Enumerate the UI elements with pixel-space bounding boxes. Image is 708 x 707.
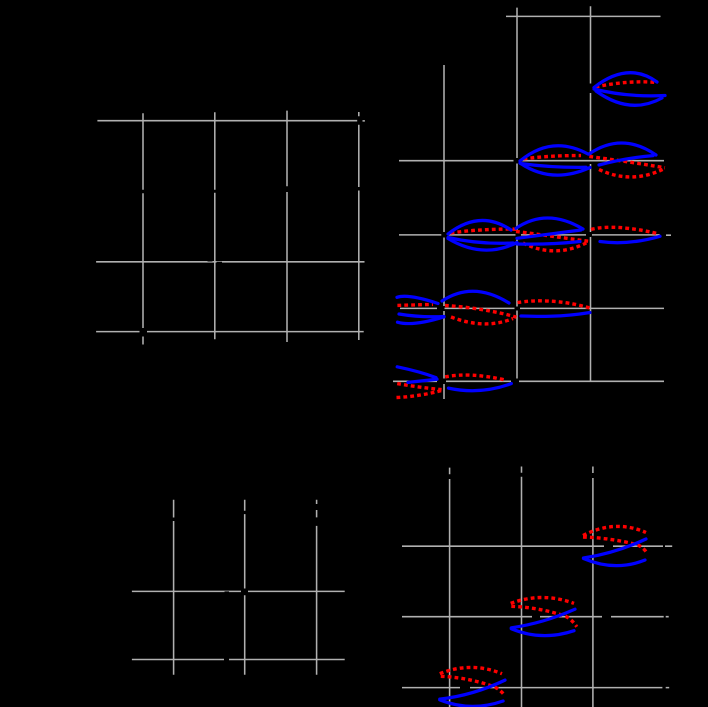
blue arc row5 cell1 upper [442,291,509,303]
blue arc row3 cell4 rising [599,156,653,165]
bottom-left plot horizontal gridline 2 [132,659,345,661]
blue arc row6 cell0 upper [397,367,436,378]
top-left plot horizontal gridline 2 [96,261,364,263]
blue arc row5 cell0 lower [398,317,445,324]
blue crescent unit C outer [440,700,503,706]
bottom-left plot vertical gridline 2 [244,500,246,675]
blue crescent unit A outer [584,559,646,566]
top-left plot vertical gridline 4 [358,112,360,340]
red arc row5 cell1 lower [451,317,513,324]
red crescent unit A inner [583,537,647,553]
red arc row4 cell2 crossing [516,231,590,241]
top-right plot horizontal line row3 [399,160,664,162]
bottom-right plot horizontal gridline 1 [402,545,672,547]
red crescent unit B inner [511,606,577,627]
top-right plot vertical gridline x590 [590,6,592,381]
red crescent unit C inner [441,676,504,695]
blue arc row6 cell0 flat [408,379,437,382]
red arc row6 cell0 upper [397,384,441,390]
black occlusion notches [208,259,230,594]
blue arc row2 lower [596,91,662,105]
red arc row3 cell3 [524,156,581,159]
blue arc row5 cell0 mid [399,314,444,317]
bottom-right plot vertical gridline 1 [449,468,451,707]
red arc row6 cell0 lower [397,390,444,398]
top-left plot horizontal gridline 1 [97,120,365,122]
blue arc row3 cell4 upper [589,143,656,155]
red arc row5 node descending [445,306,517,318]
bottom-right plot horizontal gridline 2 [402,616,669,618]
blue arc row4 cell3 lower [600,236,660,242]
bottom-right plot vertical gridline 3 [592,467,594,707]
blue arc row3 cell3 lower [520,163,590,175]
red crescent unit A outer [583,526,646,535]
bottom-left plot vertical gridline 1 [173,500,175,675]
red arc row6 cell1 upper [445,375,505,380]
top-left plot vertical gridline 1 [142,113,144,344]
blue arc row2 upper [594,73,657,88]
bottom-right plot vertical gridline 2 [521,467,523,707]
blue crescent unit C rising [440,680,505,699]
top-right plot horizontal line row4 [399,234,671,236]
blue arc row4 cell2 upper [516,218,583,229]
blue arc row4 cell1 upper [448,220,511,234]
blue crescent unit A rising [584,539,647,558]
blue arc row3 cell3 upper [520,146,588,161]
blue arc row4 cell1 mid [448,238,513,244]
red arc row2 cell4 [596,82,658,87]
top-left plot vertical gridline 2 [214,112,216,339]
blue arc row4 cell2 crossing [517,230,581,238]
blue arc row4 cell2 lower [517,242,580,245]
top-right plot vertical gridline x517 [516,8,518,379]
red arc row5 cell2 upper [518,301,591,308]
blue crescent unit B rising [511,609,575,628]
blue arc row5 cell0 upper [397,296,438,303]
bottom-left plot horizontal gridline 1 [132,590,345,592]
red dotted curves [397,82,666,695]
red arc row4 cell3 upper [591,227,659,234]
top-right plot horizontal line row6 [393,380,664,382]
red arc row4 cell2 lower [523,242,589,251]
blue crescent unit B outer [511,629,574,636]
red crescent unit C outer [440,667,502,673]
blue arc row5 cell2 lower [521,313,590,317]
blue arc row3 cell3 mid [521,164,587,168]
bottom-right plot horizontal gridline 3 [402,687,669,689]
top-right plot horizontal line row5 [400,307,664,309]
red arc row5 cell0 flat [397,304,433,305]
red arc row3 cell4 upper [589,157,665,168]
blue arc row4 cell1 lower [448,239,517,251]
bottom-left plot vertical gridline 3 [316,500,318,675]
top-left plot vertical gridline 3 [286,111,288,342]
red crescent unit B outer [511,598,574,604]
top-right plot horizontal line row1 [506,15,661,17]
top-right plot vertical gridline x444 [443,65,445,399]
red arc row3 cell4 lower [599,168,665,177]
blue solid curves [397,73,665,707]
blue arc row2 mid [594,89,665,96]
red arc row4 cell1 [451,229,517,233]
blue arc row6 cell1 lower [448,384,511,391]
top-left plot horizontal gridline 3 [96,331,364,333]
